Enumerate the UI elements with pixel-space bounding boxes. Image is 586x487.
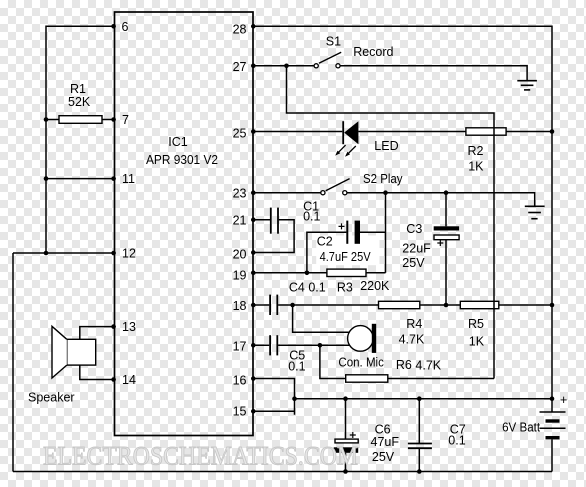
svg-text:20: 20 — [233, 248, 247, 262]
wire pin 18 to C4 — [253, 304, 269, 306]
node R2 right rail — [550, 129, 555, 134]
node pin28 — [251, 24, 256, 29]
svg-text:4.7K: 4.7K — [415, 359, 441, 373]
capacitor C6 — [334, 432, 359, 453]
svg-text:15: 15 — [233, 405, 247, 419]
wire S2 to ground — [347, 193, 535, 206]
wire pin 19 row — [253, 272, 327, 274]
svg-text:12: 12 — [122, 247, 136, 261]
svg-text:C4 0.1: C4 0.1 — [289, 280, 326, 294]
svg-text:28: 28 — [233, 23, 247, 37]
svg-text:R1: R1 — [70, 82, 86, 96]
wire R3 to C2 node — [366, 272, 386, 274]
capacitor C1 — [271, 208, 278, 234]
wire C3 branch bottom — [445, 240, 447, 305]
svg-text:7: 7 — [122, 113, 129, 127]
svg-text:22uF: 22uF — [402, 242, 431, 256]
wire speaker left rail down — [12, 253, 14, 472]
svg-text:R3: R3 — [337, 280, 353, 294]
wire pin 21 to C1 — [253, 219, 270, 221]
wire R5 crossing vertical — [493, 301, 495, 308]
wire R1 to pin 7 — [102, 119, 115, 121]
svg-text:Speaker: Speaker — [28, 391, 75, 405]
wire R6 to long vertical — [388, 378, 494, 380]
node rail-12 — [44, 251, 49, 256]
node C2 S2 row — [383, 190, 388, 195]
svg-text:19: 19 — [233, 269, 247, 283]
wire pin27 branch down-right — [287, 66, 495, 379]
C2 label white background — [316, 236, 379, 266]
svg-text:0.1: 0.1 — [303, 210, 320, 224]
svg-text:Con. Mic: Con. Mic — [338, 356, 384, 370]
wire pin 13 to speaker — [80, 327, 115, 340]
node pin27 — [251, 64, 256, 69]
wire pin 14 to speaker — [80, 365, 115, 379]
wire mic node down to R6 — [320, 345, 346, 378]
resistor R1 — [59, 116, 102, 124]
wire R2 to right rail — [506, 131, 552, 133]
svg-text:0.1: 0.1 — [288, 360, 305, 374]
node C5 mic branch — [318, 343, 323, 348]
speaker — [52, 326, 96, 378]
wire right rail R5 row to battery rail — [551, 305, 553, 399]
wire C2 left branch — [307, 232, 347, 273]
svg-text:C2: C2 — [317, 234, 333, 248]
node R5 right rail — [550, 303, 555, 308]
svg-text:IC1: IC1 — [168, 135, 188, 149]
wire pin 17 to C5 — [253, 344, 269, 346]
svg-text:47uF: 47uF — [371, 435, 400, 449]
wire C7 branch top — [418, 399, 420, 444]
wire R2 crossing vertical — [493, 128, 495, 135]
node C7 rail — [417, 396, 422, 401]
svg-text:27: 27 — [233, 60, 247, 74]
node battery rail — [550, 396, 555, 401]
svg-text:23: 23 — [233, 187, 247, 201]
node pin23 — [251, 190, 256, 195]
node C2 left pin19 row — [305, 271, 310, 276]
wire pin 11 — [46, 178, 115, 180]
svg-text:21: 21 — [233, 214, 247, 228]
wire R5 to right rail — [499, 304, 552, 306]
svg-text:C3: C3 — [406, 222, 422, 236]
svg-text:17: 17 — [233, 340, 247, 354]
node rail start — [292, 396, 297, 401]
wire C6 branch bottom — [345, 453, 347, 472]
switch S1 — [314, 52, 341, 68]
svg-text:S1: S1 — [326, 34, 341, 48]
IC U1 body APR9301 — [115, 12, 254, 436]
svg-text:220K: 220K — [360, 279, 390, 293]
node pin21 — [251, 217, 256, 222]
wire C2 node vertical — [385, 193, 387, 273]
svg-text:R4: R4 — [406, 317, 422, 331]
resistor R6 — [346, 375, 388, 382]
node pin15 — [251, 409, 256, 414]
svg-text:APR 9301 V2: APR 9301 V2 — [146, 153, 218, 167]
node pin18 — [251, 303, 256, 308]
wire C7 branch bottom — [418, 448, 420, 471]
svg-text:R2: R2 — [468, 144, 484, 158]
wire pin 6 to left rail — [46, 26, 115, 119]
capacitor C2 — [339, 221, 361, 244]
resistor R5 — [460, 301, 499, 308]
wire left rail pin11 to pin12 — [45, 179, 47, 253]
svg-text:4.7uF 25V: 4.7uF 25V — [320, 250, 372, 264]
node pin6 — [111, 24, 116, 29]
wire pin 23 to switch S2 — [253, 192, 321, 194]
node pin13 — [111, 324, 116, 329]
svg-text:16: 16 — [233, 374, 247, 388]
svg-text:13: 13 — [122, 320, 136, 334]
resistor R3 — [327, 269, 366, 276]
battery 6V — [540, 399, 566, 472]
wire C6 branch top — [345, 399, 347, 439]
svg-text:LED: LED — [374, 139, 398, 153]
wire R4 to C3 node — [420, 304, 461, 306]
wire pin 12 — [13, 252, 115, 254]
svg-text:0.1: 0.1 — [448, 434, 465, 448]
svg-text:6V Batt: 6V Batt — [502, 421, 540, 435]
node pin25 — [251, 129, 256, 134]
wire ground rail — [295, 398, 553, 400]
capacitor C5 — [270, 335, 277, 355]
svg-text:25: 25 — [233, 127, 247, 141]
wire C4 to R4 — [278, 304, 378, 306]
wire C5 to mic lower — [278, 344, 349, 346]
wire pin 15 — [253, 410, 295, 412]
wire pin 25 to LED — [253, 131, 342, 133]
wire bottom rail — [13, 471, 552, 473]
wire C1 to pin 20 loop — [253, 220, 294, 253]
svg-text:4.7K: 4.7K — [399, 333, 425, 347]
svg-text:18: 18 — [233, 299, 247, 313]
node C4 branch — [290, 303, 295, 308]
capacitor C4 — [270, 295, 277, 315]
node pin20 — [251, 250, 256, 255]
wire pin 27 to switch S1 — [253, 65, 314, 67]
microphone Con. Mic — [348, 324, 377, 353]
node pin16 — [251, 376, 256, 381]
wire pin 16 down to pin 15 — [253, 379, 295, 415]
node rail-R1 — [44, 117, 49, 122]
node pin19 — [251, 271, 256, 276]
svg-text:1K: 1K — [468, 160, 484, 174]
svg-text:14: 14 — [122, 373, 136, 387]
node C6 bottom — [343, 469, 348, 474]
wire right rail R2 to R5 row — [551, 132, 553, 306]
wire left rail pin7 to pin11 — [45, 120, 47, 179]
svg-text:11: 11 — [122, 172, 135, 186]
node C3 S2 row — [444, 190, 449, 195]
svg-text:52K: 52K — [68, 95, 91, 109]
svg-text:+: + — [560, 393, 567, 407]
node C7 bottom — [417, 469, 422, 474]
switch S2 — [321, 179, 350, 195]
svg-text:ELECTROSCHEMATICS.COM: ELECTROSCHEMATICS.COM — [43, 442, 358, 471]
wire S1 to ground — [340, 66, 527, 81]
node pin27 branch — [284, 64, 289, 69]
capacitor C3 — [434, 226, 459, 246]
svg-text:Record: Record — [353, 45, 393, 59]
ground (S2) — [525, 206, 545, 218]
wire LED to R2 — [358, 131, 466, 133]
svg-text:25V: 25V — [402, 256, 425, 270]
svg-text:6: 6 — [122, 20, 129, 34]
svg-text:1K: 1K — [469, 335, 485, 349]
wire C3 branch top — [445, 193, 447, 227]
wire C4 node to mic upper — [293, 305, 349, 332]
wire pin 28 to right rail — [253, 26, 552, 131]
svg-text:25V: 25V — [372, 450, 395, 464]
node pin17 — [251, 343, 256, 348]
wire pin 7 — [46, 119, 59, 121]
node C6 rail — [343, 396, 348, 401]
ground (S1) — [517, 81, 537, 90]
node pin7 — [111, 117, 116, 122]
node pin14 — [111, 377, 116, 382]
node pin11 — [111, 176, 116, 181]
capacitor C7 — [408, 444, 432, 449]
node rail-11 — [44, 176, 49, 181]
node pin12 — [111, 251, 116, 256]
svg-text:R5: R5 — [468, 317, 484, 331]
svg-text:S2 Play: S2 Play — [363, 172, 403, 186]
node C3 R4 R5 — [444, 303, 449, 308]
svg-text:R6: R6 — [396, 358, 412, 372]
wire C2 right branch to S2 row — [360, 231, 386, 233]
resistor R4 — [379, 301, 420, 308]
resistor R2 — [466, 128, 506, 135]
LED D1 — [335, 121, 358, 157]
